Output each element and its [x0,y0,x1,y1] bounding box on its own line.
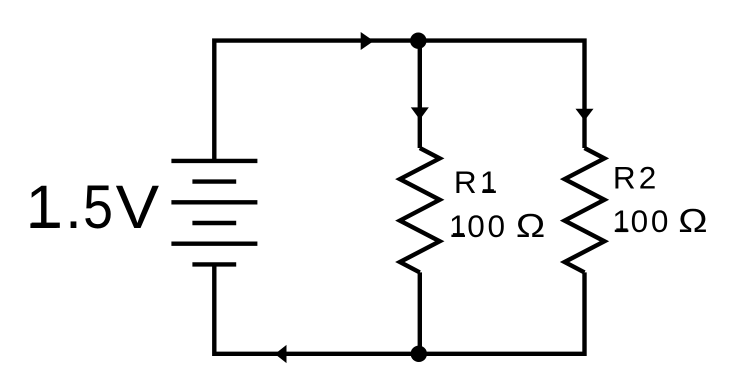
svg-text:1: 1 [449,208,467,244]
wire: bottom rail node B to bottom-left corner, up to battery - terminal [214,264,418,353]
svg-text:.: . [65,173,82,241]
resistor R2 (zigzag) [565,148,605,272]
svg-text:1: 1 [26,173,60,241]
wire: node A down to R1 [418,41,422,148]
wire: battery + terminal up, top-left corner, top rail to node A [214,41,418,161]
battery value label 1.5V [26,173,159,242]
svg-text:V: V [116,174,160,242]
svg-text:1: 1 [612,203,630,239]
svg-text:R: R [454,164,477,200]
svg-text:Ω: Ω [516,207,545,244]
node A (top junction dot) [410,33,426,49]
current arrow (top rail, pointing right) [361,32,374,50]
wire: R2 bottom, bottom-right corner, bottom rail to node B [419,272,585,353]
svg-text:R2: R2 [613,159,659,195]
wire: top rail node A to top-right corner, down to R2 [418,41,584,148]
wire: R1 bottom to node B [418,272,422,353]
svg-text:Ω: Ω [678,202,707,239]
svg-text:1: 1 [480,164,498,200]
node B (bottom junction dot) [411,346,427,362]
resistor R1 (zigzag) [400,148,440,272]
resistor R1 value label 100Ω [449,207,545,244]
battery B1 (3-cell, 1.5V) [171,161,257,265]
resistor R2 value label 100Ω [612,202,707,239]
resistor R2 reference label [613,159,659,195]
svg-text:5: 5 [83,174,113,242]
current arrow (bottom rail, pointing left, return current) [275,345,287,363]
svg-text:00: 00 [467,208,507,244]
svg-text:00: 00 [631,203,671,239]
current arrow I1 (down into R1) [411,107,429,119]
resistor R1 reference label [454,164,497,200]
current arrow I2 (down into R2) [576,109,594,121]
